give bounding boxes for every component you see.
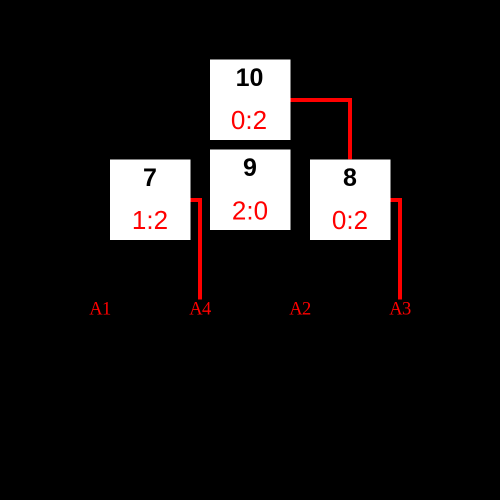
node box 8 [310,160,391,241]
svg-text:8: 8 [343,164,357,192]
node box 10 [210,60,291,141]
svg-text:0:2: 0:2 [231,105,267,135]
svg-text:A4: A4 [189,300,211,320]
svg-text:7: 7 [143,164,157,192]
svg-text:0:2: 0:2 [332,205,368,235]
svg-text:1:2: 1:2 [132,205,168,235]
svg-text:A3: A3 [389,300,411,320]
node box 9 [210,150,291,231]
wire from node 8 down to leaf A3 [391,200,401,300]
node box 7 [110,160,191,241]
wire from node 10 to node 8 [291,100,351,159]
svg-text:9: 9 [243,154,257,182]
svg-text:10: 10 [236,64,264,92]
svg-text:A1: A1 [89,300,111,320]
svg-text:A2: A2 [289,300,311,320]
wire from node 7 down to leaf A4 [191,200,201,300]
svg-text:2:0: 2:0 [232,195,268,225]
